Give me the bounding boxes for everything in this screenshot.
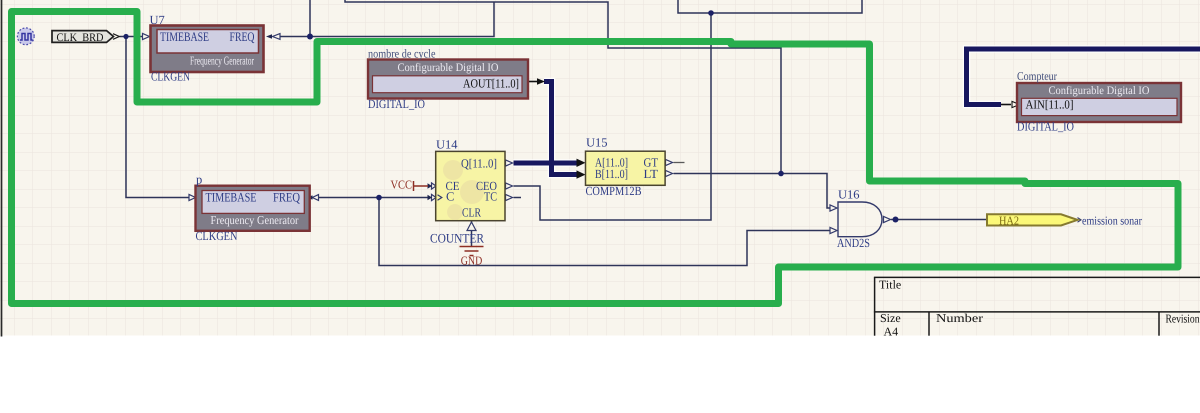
svg-text:emission sonar: emission sonar	[1082, 214, 1142, 228]
svg-text:B[11..0]: B[11..0]	[595, 167, 628, 181]
svg-text:COMPM12B: COMPM12B	[586, 184, 642, 198]
svg-text:COUNTER: COUNTER	[430, 231, 484, 246]
svg-text:FREQ: FREQ	[230, 29, 255, 44]
svg-text:Number: Number	[936, 311, 983, 325]
svg-text:TIMEBASE: TIMEBASE	[160, 29, 209, 44]
svg-text:C: C	[446, 190, 454, 204]
svg-text:U15: U15	[586, 136, 608, 150]
svg-text:Frequency Generator: Frequency Generator	[190, 54, 254, 68]
svg-text:Q[11..0]: Q[11..0]	[461, 157, 497, 171]
svg-text:A4: A4	[884, 325, 899, 339]
svg-text:Size: Size	[880, 311, 901, 325]
svg-text:AIN[11..0]: AIN[11..0]	[1026, 98, 1074, 112]
svg-text:AND2S: AND2S	[837, 236, 870, 250]
svg-text:AOUT[11..0]: AOUT[11..0]	[463, 77, 519, 91]
svg-text:U14: U14	[436, 138, 458, 152]
svg-text:Configurable Digital IO: Configurable Digital IO	[1049, 85, 1150, 97]
svg-text:p: p	[196, 173, 202, 187]
svg-text:nombre de cycle: nombre de cycle	[368, 47, 436, 61]
svg-text:Configurable Digital IO: Configurable Digital IO	[398, 62, 499, 74]
svg-text:U7: U7	[150, 13, 165, 27]
svg-text:Title: Title	[879, 278, 901, 292]
svg-text:VCC: VCC	[391, 178, 413, 192]
svg-text:Frequency Generator: Frequency Generator	[211, 213, 299, 227]
svg-text:DIGITAL_IO: DIGITAL_IO	[1017, 120, 1074, 134]
svg-text:DIGITAL_IO: DIGITAL_IO	[368, 97, 425, 111]
svg-text:CLK_BRD: CLK_BRD	[57, 32, 104, 44]
svg-text:FREQ: FREQ	[273, 190, 300, 205]
svg-text:Compteur: Compteur	[1017, 69, 1057, 83]
svg-text:Revision: Revision	[1166, 312, 1200, 326]
svg-text:CLKGEN: CLKGEN	[196, 229, 238, 243]
svg-text:CLKGEN: CLKGEN	[151, 70, 190, 84]
svg-text:HA2: HA2	[999, 214, 1019, 228]
svg-text:GND: GND	[461, 254, 483, 268]
svg-text:TC: TC	[484, 190, 497, 204]
svg-text:CLR: CLR	[462, 206, 482, 220]
svg-text:TIMEBASE: TIMEBASE	[206, 190, 257, 205]
svg-text:U16: U16	[838, 188, 860, 202]
svg-text:LT: LT	[644, 167, 659, 181]
